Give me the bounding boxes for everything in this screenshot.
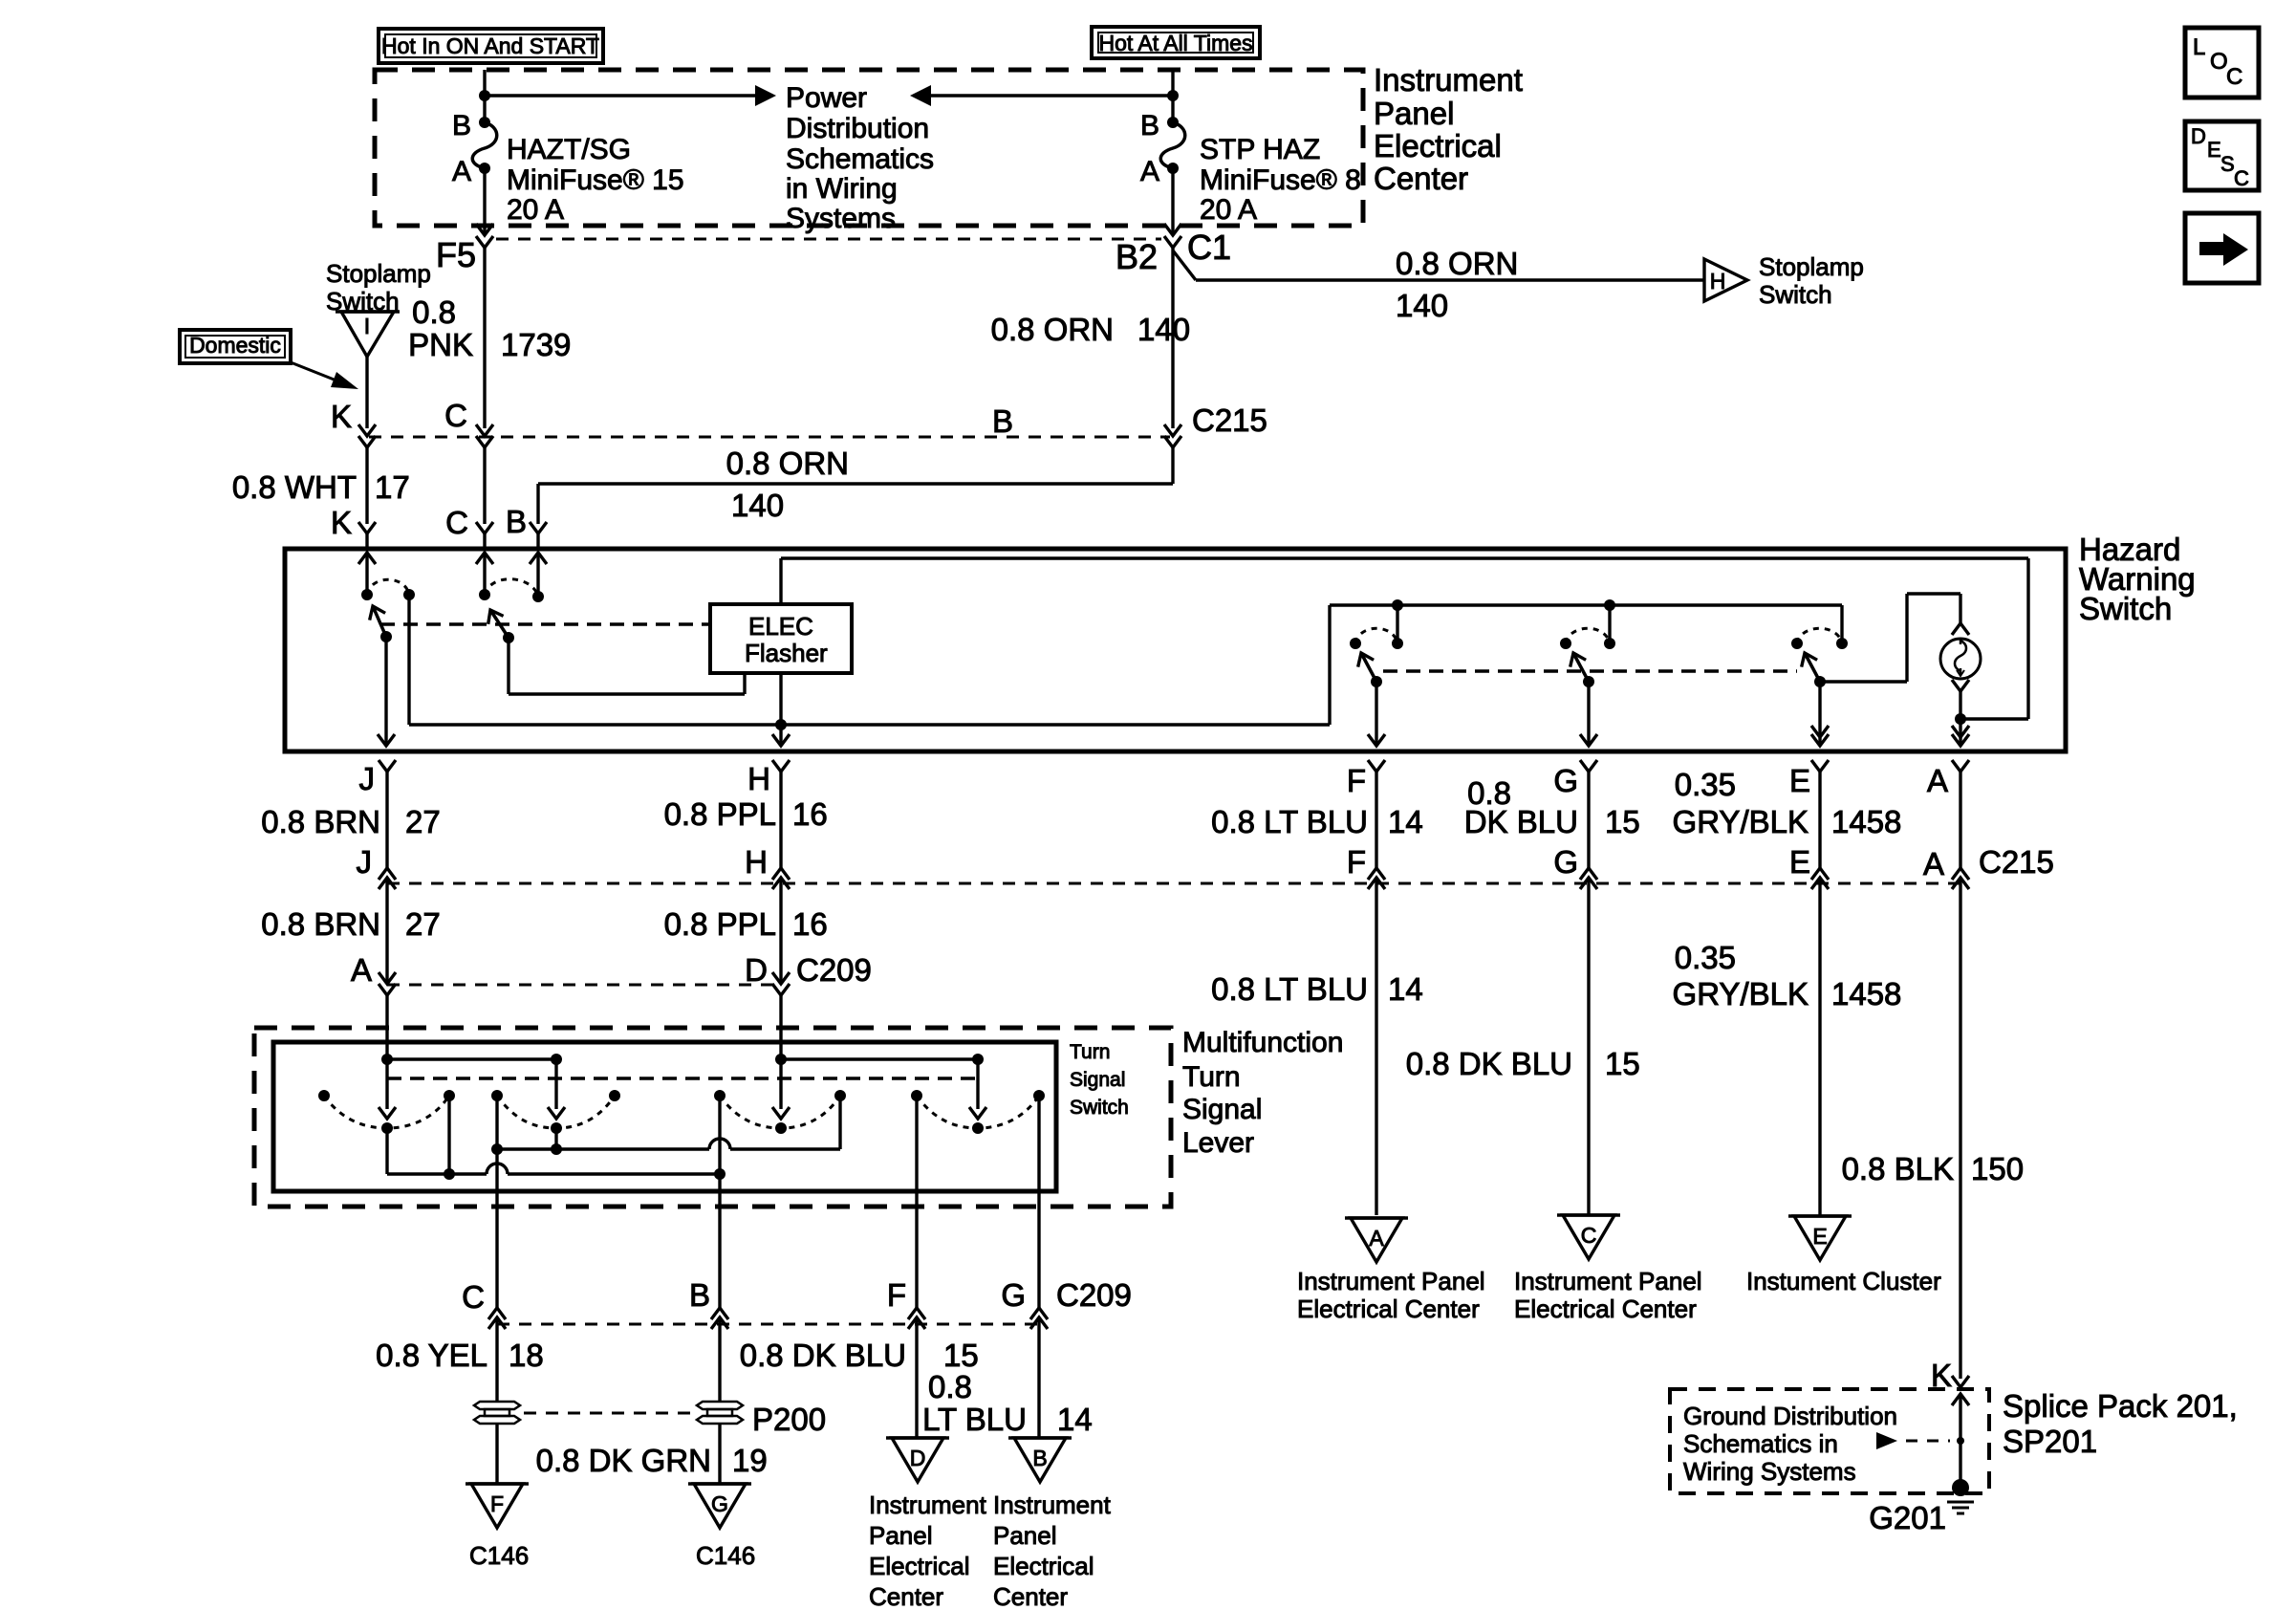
svg-text:C1: C1 <box>1187 228 1231 267</box>
svg-text:C: C <box>1581 1223 1597 1248</box>
svg-text:F: F <box>1347 844 1366 880</box>
svg-text:A: A <box>1927 763 1948 798</box>
svg-text:STP HAZ: STP HAZ <box>1200 134 1320 165</box>
svg-text:I: I <box>364 314 370 338</box>
svg-text:F: F <box>1347 763 1366 798</box>
svg-text:Instrument: Instrument <box>993 1490 1112 1519</box>
svg-text:C: C <box>2234 166 2249 190</box>
svg-text:Splice Pack 201,: Splice Pack 201, <box>2003 1388 2238 1424</box>
svg-text:J: J <box>359 761 376 796</box>
svg-text:Electrical: Electrical <box>869 1552 969 1580</box>
svg-text:GRY/BLK: GRY/BLK <box>1673 976 1809 1012</box>
svg-text:14: 14 <box>1388 971 1423 1007</box>
svg-text:27: 27 <box>405 804 441 839</box>
svg-text:SP201: SP201 <box>2003 1424 2097 1459</box>
svg-text:0.8 PPL: 0.8 PPL <box>664 906 776 942</box>
svg-text:E: E <box>2207 138 2221 162</box>
svg-text:GRY/BLK: GRY/BLK <box>1673 804 1809 839</box>
svg-text:Flasher: Flasher <box>745 639 828 667</box>
svg-text:0.8: 0.8 <box>412 294 456 330</box>
svg-text:140: 140 <box>731 488 784 523</box>
svg-text:in Wiring: in Wiring <box>786 173 898 205</box>
svg-text:K: K <box>331 505 352 540</box>
svg-text:0.8 ORN: 0.8 ORN <box>1396 246 1518 281</box>
svg-text:A: A <box>1369 1226 1384 1251</box>
svg-text:140: 140 <box>1396 288 1448 323</box>
svg-text:20 A: 20 A <box>1200 194 1257 226</box>
svg-text:0.8 ORN: 0.8 ORN <box>726 446 849 481</box>
svg-text:A: A <box>351 952 372 988</box>
svg-text:A: A <box>1140 156 1159 187</box>
svg-text:DK BLU: DK BLU <box>1464 804 1578 839</box>
svg-text:Turn: Turn <box>1182 1061 1241 1093</box>
svg-text:B: B <box>452 110 471 141</box>
svg-text:0.8 PPL: 0.8 PPL <box>664 796 776 832</box>
svg-text:14: 14 <box>1388 804 1423 839</box>
svg-text:27: 27 <box>405 906 441 942</box>
svg-text:Signal: Signal <box>1182 1094 1262 1125</box>
svg-text:L: L <box>2193 34 2205 60</box>
svg-text:O: O <box>2210 49 2228 75</box>
svg-text:0.8 YEL: 0.8 YEL <box>376 1338 487 1373</box>
svg-text:15: 15 <box>1605 804 1640 839</box>
svg-text:0.8 BRN: 0.8 BRN <box>261 906 380 942</box>
svg-text:LT BLU: LT BLU <box>922 1402 1027 1437</box>
svg-text:17: 17 <box>375 469 410 505</box>
svg-text:Panel: Panel <box>869 1521 933 1550</box>
svg-text:0.35: 0.35 <box>1675 940 1736 975</box>
svg-text:Electrical: Electrical <box>993 1552 1094 1580</box>
svg-text:B: B <box>689 1277 710 1313</box>
svg-text:F: F <box>887 1277 906 1313</box>
svg-text:C: C <box>445 505 468 540</box>
svg-text:G: G <box>1553 844 1578 880</box>
svg-text:G: G <box>1553 763 1578 798</box>
svg-text:C: C <box>2226 64 2242 90</box>
svg-text:Electrical: Electrical <box>1374 128 1502 163</box>
svg-text:15: 15 <box>943 1338 979 1373</box>
svg-text:0.8 ORN: 0.8 ORN <box>991 312 1114 347</box>
svg-text:C: C <box>462 1279 485 1315</box>
svg-text:Instrument: Instrument <box>869 1490 987 1519</box>
svg-text:E: E <box>1789 763 1810 798</box>
svg-text:D: D <box>2191 124 2206 148</box>
svg-text:J: J <box>357 844 373 880</box>
svg-text:A: A <box>452 156 471 187</box>
svg-text:Switch: Switch <box>2079 591 2172 626</box>
svg-text:Instument Cluster: Instument Cluster <box>1746 1267 1941 1295</box>
svg-text:E: E <box>1812 1224 1827 1249</box>
svg-text:0.8 DK GRN: 0.8 DK GRN <box>536 1443 711 1478</box>
svg-text:Multifunction: Multifunction <box>1182 1027 1343 1058</box>
svg-text:F5: F5 <box>436 235 476 274</box>
svg-text:150: 150 <box>1971 1151 2024 1186</box>
svg-text:Power: Power <box>786 82 867 114</box>
svg-text:19: 19 <box>732 1443 768 1478</box>
svg-text:H: H <box>1710 269 1726 294</box>
svg-text:B: B <box>506 504 527 539</box>
svg-text:Panel: Panel <box>1374 96 1454 131</box>
svg-text:F: F <box>490 1491 504 1516</box>
svg-text:ELEC: ELEC <box>748 612 813 641</box>
svg-text:Instrument Panel: Instrument Panel <box>1297 1267 1485 1295</box>
svg-text:G: G <box>711 1491 728 1516</box>
svg-text:Stoplamp: Stoplamp <box>326 259 431 288</box>
svg-text:Ground Distribution: Ground Distribution <box>1683 1402 1897 1430</box>
svg-text:0.35: 0.35 <box>1675 767 1736 802</box>
svg-text:Turn: Turn <box>1070 1041 1110 1063</box>
svg-text:A: A <box>1923 846 1944 881</box>
svg-text:G201: G201 <box>1869 1500 1946 1535</box>
svg-text:140: 140 <box>1137 312 1190 347</box>
svg-text:Electrical Center: Electrical Center <box>1297 1295 1480 1323</box>
svg-text:Signal: Signal <box>1070 1069 1125 1091</box>
svg-text:0.8: 0.8 <box>928 1369 972 1404</box>
svg-text:H: H <box>747 761 770 796</box>
svg-text:Schematics in: Schematics in <box>1683 1429 1838 1458</box>
svg-text:Lever: Lever <box>1182 1127 1254 1159</box>
svg-text:Schematics: Schematics <box>786 143 934 175</box>
svg-text:G: G <box>1001 1277 1026 1313</box>
svg-text:Switch: Switch <box>1759 280 1832 309</box>
svg-text:Domestic: Domestic <box>189 333 281 358</box>
svg-text:C215: C215 <box>1192 402 1267 438</box>
svg-text:Stoplamp: Stoplamp <box>1759 252 1864 281</box>
svg-text:0.8 LT BLU: 0.8 LT BLU <box>1211 804 1368 839</box>
svg-text:MiniFuse® 8: MiniFuse® 8 <box>1200 164 1361 196</box>
svg-text:14: 14 <box>1057 1402 1093 1437</box>
svg-text:B2: B2 <box>1116 237 1158 276</box>
svg-text:B: B <box>1032 1446 1047 1470</box>
svg-text:MiniFuse® 15: MiniFuse® 15 <box>507 164 684 196</box>
svg-text:Center: Center <box>1374 161 1468 196</box>
svg-text:D: D <box>745 952 768 988</box>
svg-text:Systems: Systems <box>786 203 896 234</box>
svg-text:Center: Center <box>993 1582 1068 1610</box>
svg-text:Distribution: Distribution <box>786 113 929 144</box>
svg-text:Panel: Panel <box>993 1521 1057 1550</box>
svg-text:C146: C146 <box>696 1541 755 1570</box>
svg-text:C215: C215 <box>1979 844 2054 880</box>
svg-text:S: S <box>2220 152 2235 176</box>
svg-text:E: E <box>1789 844 1810 880</box>
svg-text:0.8 BLK: 0.8 BLK <box>1842 1151 1954 1186</box>
svg-text:B: B <box>992 403 1013 439</box>
svg-text:15: 15 <box>1605 1046 1640 1081</box>
svg-text:K: K <box>331 399 352 434</box>
svg-text:Wiring Systems: Wiring Systems <box>1683 1457 1856 1486</box>
svg-text:C209: C209 <box>796 952 872 988</box>
svg-text:C146: C146 <box>469 1541 529 1570</box>
svg-text:1458: 1458 <box>1831 804 1901 839</box>
svg-text:Hot In ON And START: Hot In ON And START <box>381 33 599 58</box>
svg-text:0.8 BRN: 0.8 BRN <box>261 804 380 839</box>
svg-text:Instrument: Instrument <box>1374 62 1523 98</box>
svg-text:0.8 DK BLU: 0.8 DK BLU <box>740 1338 906 1373</box>
svg-text:16: 16 <box>792 906 828 942</box>
svg-text:Hot At All Times: Hot At All Times <box>1098 31 1252 55</box>
svg-text:Instrument Panel: Instrument Panel <box>1514 1267 1702 1295</box>
svg-text:Electrical Center: Electrical Center <box>1514 1295 1697 1323</box>
svg-text:20 A: 20 A <box>507 194 564 226</box>
svg-text:Switch: Switch <box>1070 1097 1129 1119</box>
svg-text:HAZT/SG: HAZT/SG <box>507 134 631 165</box>
svg-text:18: 18 <box>509 1338 544 1373</box>
svg-text:0.8 LT BLU: 0.8 LT BLU <box>1211 971 1368 1007</box>
svg-text:B: B <box>1140 110 1159 141</box>
svg-text:0.8 DK BLU: 0.8 DK BLU <box>1406 1046 1572 1081</box>
svg-text:D: D <box>910 1446 926 1470</box>
svg-text:1739: 1739 <box>501 327 571 362</box>
svg-text:C209: C209 <box>1056 1277 1132 1313</box>
svg-text:16: 16 <box>792 796 828 832</box>
svg-text:H: H <box>745 844 768 880</box>
svg-text:Center: Center <box>869 1582 943 1610</box>
svg-text:C: C <box>444 398 467 433</box>
svg-text:0.8 WHT: 0.8 WHT <box>232 469 357 505</box>
svg-text:PNK: PNK <box>408 327 473 362</box>
svg-text:P200: P200 <box>752 1402 826 1437</box>
svg-text:1458: 1458 <box>1831 976 1901 1012</box>
